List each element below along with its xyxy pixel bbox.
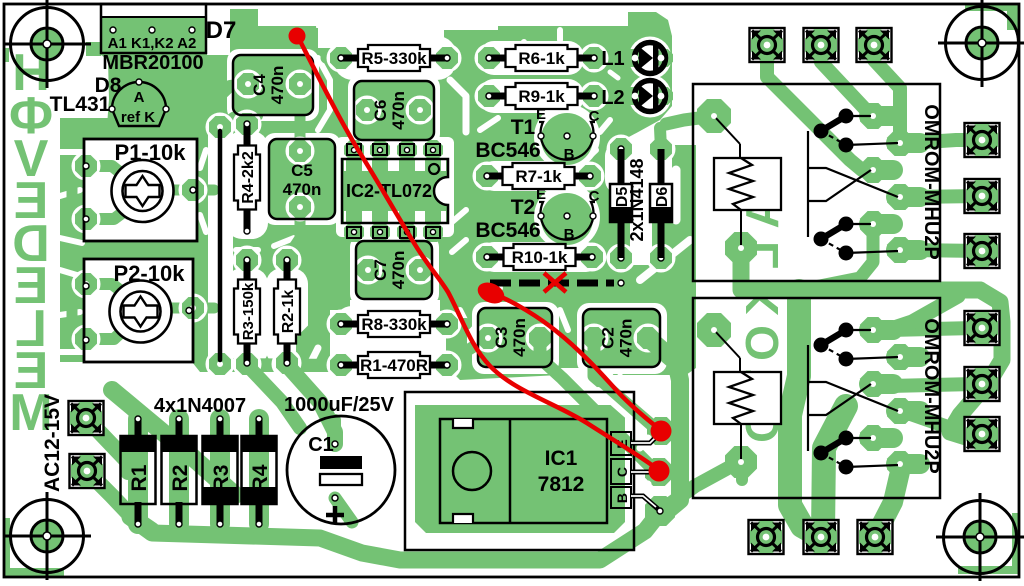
IC1 body outline	[440, 419, 607, 523]
clearance white D7 top strip	[103, 6, 205, 17]
IC1 tab hole	[453, 452, 491, 490]
trace J1-3 to relay1	[874, 45, 900, 143]
trace relay2 stub 384	[888, 384, 975, 386]
IC2 inner white bottom	[344, 211, 446, 222]
capacitor C6	[354, 81, 434, 140]
svg-text:O: O	[736, 325, 788, 361]
trace relay2 into top	[888, 296, 958, 330]
wire link W1	[218, 131, 223, 360]
IC1 notch top	[453, 419, 473, 428]
trimpot P2	[83, 259, 193, 362]
copper pour C3 C2 band	[440, 296, 696, 380]
copper pour middle-left block	[60, 118, 350, 372]
IC2 pin pads copper	[344, 140, 443, 242]
screw pad AC-2	[70, 454, 105, 488]
clearance ring R3	[226, 268, 268, 366]
screw pad bottom-1	[749, 520, 784, 554]
svg-text:R4: R4	[249, 464, 272, 491]
IC1 notch bottom	[453, 514, 473, 523]
trace C6 down	[362, 110, 372, 128]
screw pad J1-2	[804, 28, 839, 62]
svg-text:D6: D6	[654, 187, 671, 208]
IC1 heatsink copper	[415, 405, 625, 533]
copper pour D5 D6 blob	[598, 145, 696, 330]
trace P2 right pad	[193, 303, 214, 314]
svg-text:C1: C1	[308, 434, 334, 456]
svg-text:470n: 470n	[617, 319, 636, 358]
svg-text:A: A	[134, 89, 145, 106]
IC2 notch white	[434, 177, 448, 205]
trace P1 inside left-top	[88, 166, 132, 182]
clearance ring C6	[348, 75, 440, 146]
trace C3right to pinC	[540, 338, 659, 471]
svg-text:B: B	[564, 226, 575, 243]
clearance ring C4	[227, 49, 319, 121]
LED L2	[632, 81, 666, 112]
copper pour top-left D7 TL431 zone	[96, 9, 318, 142]
copper pour T column	[462, 104, 606, 298]
green left edge notch	[4, 48, 9, 62]
svg-text:B: B	[614, 493, 630, 503]
svg-text:C: C	[614, 467, 630, 477]
resistor R6	[486, 45, 597, 71]
svg-text:C3: C3	[492, 327, 511, 349]
svg-text:B: B	[564, 146, 575, 163]
screw pad right-5	[965, 367, 1000, 401]
trace R5 right to R9	[447, 58, 489, 96]
clearance ring L1	[629, 37, 672, 80]
trace relay2 411 out	[902, 411, 970, 434]
trace relay1 pad224 down	[800, 234, 873, 290]
green mirrored text ALKOTO	[736, 195, 788, 443]
T1 copper fill	[541, 113, 593, 165]
red jumper wire B	[492, 293, 658, 428]
diode D5	[610, 149, 632, 258]
clearance IC1 pads	[640, 438, 648, 492]
mounting hole bottom-left	[3, 492, 91, 580]
T2 copper fill	[541, 193, 593, 245]
svg-text:L1: L1	[601, 48, 624, 70]
capacitor C2	[583, 309, 660, 367]
mounting hole top-right	[938, 0, 1024, 87]
IC1 pin B box	[611, 487, 631, 508]
svg-text:P2-10k: P2-10k	[114, 261, 186, 286]
svg-text:R1-470R: R1-470R	[360, 356, 428, 375]
diag trace rowpads to C1	[286, 364, 335, 444]
trace diode bus bottom	[130, 512, 660, 560]
trace relay2 stub 330	[888, 328, 975, 330]
resistor R8	[338, 311, 450, 337]
trace LED zone to D6	[660, 128, 661, 149]
diode R4	[242, 416, 277, 527]
screw pad J1-3	[857, 28, 892, 62]
capacitor C3	[478, 308, 552, 367]
green mirrored brand text	[9, 44, 53, 442]
trace C5 down	[288, 207, 300, 256]
svg-text:TL431: TL431	[50, 93, 111, 116]
trace AC2 diag	[87, 471, 152, 530]
diode R2	[162, 416, 197, 527]
resistor R7	[484, 163, 593, 189]
clearance ring IC2	[336, 137, 454, 237]
svg-text:OMROM-MHU2P: OMROM-MHU2P	[920, 104, 942, 260]
clearance white inside P2 box	[84, 259, 193, 362]
IC1 pin C lead	[631, 470, 652, 475]
svg-text:R3-150k: R3-150k	[240, 282, 257, 340]
svg-text:T2: T2	[511, 196, 536, 219]
svg-text:470n: 470n	[268, 66, 287, 105]
IC1 tab divider	[509, 419, 512, 523]
capacitor C2 copper fill	[583, 309, 660, 367]
screw pad right-2	[965, 179, 1000, 213]
trace P2 inside left-top	[88, 284, 130, 298]
svg-text:C2: C2	[599, 327, 618, 349]
svg-text:R5-330k: R5-330k	[361, 49, 427, 68]
clearance ring R8 R1	[334, 306, 446, 382]
LED L1	[632, 43, 666, 74]
screw pad AC-1	[69, 401, 104, 435]
copper pour center block	[256, 145, 512, 300]
red X mark	[544, 273, 566, 292]
capacitor C5	[269, 139, 335, 219]
clearance channels field texture	[60, 30, 618, 364]
screw pad right-4	[965, 311, 1000, 345]
copper pour top-middle band	[256, 26, 512, 145]
trace P2 left pads	[72, 284, 86, 339]
clearance ring R2	[266, 268, 308, 366]
IC1 right pads copper	[645, 417, 675, 526]
LED pads	[625, 49, 673, 105]
clearance ring R7	[480, 161, 598, 191]
cut trace end hole	[618, 280, 624, 286]
svg-text:R3: R3	[210, 465, 233, 492]
clearance ring C7	[350, 235, 439, 306]
diode R3	[203, 416, 238, 527]
IC1 pin B lead	[631, 496, 658, 509]
capacitor C1 pads	[332, 441, 338, 501]
green corner bottom-left	[4, 518, 64, 577]
diode vertical strips	[138, 419, 259, 524]
svg-text:R8-330k: R8-330k	[361, 315, 427, 334]
cut trace dashed line	[490, 280, 614, 287]
trace relay1 right stubs	[910, 140, 982, 251]
svg-text:P1-10k: P1-10k	[115, 140, 187, 165]
svg-text:L: L	[736, 241, 788, 269]
trace J1-1 to relay1	[767, 45, 873, 170]
trace C1 minus diag	[335, 498, 352, 522]
svg-text:R4-2k2: R4-2k2	[240, 151, 257, 204]
svg-text:R2-1k: R2-1k	[280, 290, 297, 334]
svg-text:A1 K1,K2 A2: A1 K1,K2 A2	[108, 35, 197, 52]
relay RY1 copper pads	[697, 99, 930, 264]
trace relay1 coil left	[666, 116, 714, 124]
clearance ring R4	[226, 131, 268, 239]
svg-text:E: E	[536, 186, 546, 203]
svg-text:C: C	[589, 108, 600, 125]
capacitor C7 copper fill	[356, 241, 432, 299]
IC1 pin E box	[611, 432, 631, 455]
trace C4 to C5	[295, 84, 306, 151]
svg-text:470n: 470n	[389, 91, 408, 130]
diag trace 246 to diodes	[246, 364, 300, 428]
copper pads group A	[72, 70, 663, 379]
trace TL431 right to C4	[166, 84, 248, 109]
op-amp IC2 pin1 mark	[429, 164, 439, 174]
trace relay2 down B	[823, 406, 846, 533]
trace R9 to L2	[594, 91, 628, 101]
red wire A start dot	[289, 28, 306, 45]
trace C2left to pinE	[594, 338, 659, 431]
red wire A end dot	[649, 461, 670, 482]
resistor R2-1k	[274, 257, 300, 366]
screw pad bottom-3	[858, 520, 893, 554]
trace P1 inside left-bot	[88, 204, 134, 219]
svg-text:2x1N4148: 2x1N4148	[627, 158, 647, 241]
trace R8 right	[447, 318, 466, 330]
svg-text:BC546: BC546	[475, 219, 540, 242]
red wire B start dot	[474, 278, 507, 307]
IC1 pin C box	[611, 459, 631, 484]
trace AC1 diag	[86, 418, 128, 472]
trace R6 to L1	[594, 53, 628, 63]
svg-text:BC546: BC546	[475, 139, 540, 162]
trace relay2 down C	[876, 463, 902, 535]
svg-text:C6: C6	[371, 100, 390, 122]
trace C7 up	[363, 250, 373, 270]
trace pads row y364	[219, 364, 340, 365]
svg-text:L2: L2	[601, 87, 624, 109]
trace P2 inside left-bot	[88, 322, 132, 339]
svg-text:MBR20100: MBR20100	[102, 52, 203, 74]
screw pad right-3	[965, 234, 1000, 268]
IC2 copper fill	[342, 159, 448, 223]
svg-text:R7-1k: R7-1k	[515, 167, 562, 186]
svg-text:R6-1k: R6-1k	[518, 49, 565, 68]
copper pads group B ringed	[327, 44, 676, 380]
relay RY2 OMROM-MHU2P	[693, 298, 942, 498]
trace link top	[220, 117, 256, 127]
clearance ring R10	[480, 242, 600, 272]
clearance ring R9	[478, 79, 584, 113]
green corner top-right	[965, 4, 1020, 30]
capacitor C1 outline	[287, 416, 395, 524]
trace R1-470R to C3	[447, 338, 488, 365]
clearance white between D5 D6	[630, 150, 652, 265]
capacitor C6 copper fill	[354, 81, 434, 140]
IC2 pin columns	[346, 159, 441, 223]
resistor R1-470R	[338, 352, 450, 378]
svg-text:C5: C5	[291, 161, 313, 180]
screw pad right-1	[965, 123, 1000, 157]
green corner bottom-right	[958, 513, 1020, 574]
clearance ring C5	[263, 133, 341, 225]
capacitor C3 copper fill	[478, 308, 552, 367]
capacitor C1 plates	[320, 456, 362, 485]
trace R5 left	[326, 53, 341, 64]
clearance channel diag1	[598, 390, 650, 452]
svg-text:C: C	[589, 188, 600, 205]
IC1 pin E lead	[631, 432, 661, 443]
trace J1-2 to relay1	[821, 45, 873, 116]
copper pour L zone	[498, 12, 672, 145]
relay RY1 OMROM-MHU2P	[693, 84, 942, 281]
relay RY2 copper pads	[697, 313, 930, 478]
IC1 heatsink outline	[405, 392, 634, 550]
trace R4 top	[247, 116, 258, 124]
svg-text:ref K: ref K	[121, 109, 155, 126]
clearance ring R5	[333, 36, 457, 80]
trace D7 K down	[145, 32, 159, 55]
trace R8 left elbow	[302, 324, 341, 362]
trace C2 right down bar	[648, 338, 680, 510]
clearance ring C2	[577, 303, 667, 374]
trace S-curve	[950, 290, 1002, 437]
red wire B end dot	[651, 421, 672, 442]
IC2 inner white top	[344, 160, 446, 171]
clearance ring T1	[534, 104, 600, 170]
clearance ring D5D6	[605, 142, 672, 194]
diode R1	[121, 416, 156, 527]
svg-text:4x1N4007: 4x1N4007	[154, 395, 246, 417]
resistor R9	[486, 83, 597, 109]
svg-text:R10-1k: R10-1k	[512, 248, 568, 267]
clearance ring T2	[534, 184, 600, 250]
svg-text:7812: 7812	[538, 473, 585, 496]
trace P1 left pads	[72, 166, 86, 219]
svg-text:470n: 470n	[389, 251, 408, 290]
svg-text:AC12-15V: AC12-15V	[41, 394, 64, 492]
trace C1 top entry	[329, 420, 341, 444]
svg-text:E: E	[536, 106, 546, 123]
capacitor C4	[233, 55, 313, 115]
op-amp IC2 pins	[347, 144, 440, 238]
svg-text:OMROM-MHU2P: OMROM-MHU2P	[920, 318, 942, 474]
trace P2 inside right	[164, 303, 190, 314]
mounting hole top-left	[3, 0, 91, 88]
resistor R10	[484, 244, 595, 270]
trace Bpad to relay2	[660, 463, 742, 511]
svg-text:R9-1k: R9-1k	[518, 87, 565, 106]
trace relay2 coil down	[736, 463, 748, 480]
screw pad right-6	[965, 417, 1000, 451]
svg-text:D7: D7	[206, 17, 237, 44]
svg-text:T1: T1	[511, 116, 536, 139]
capacitor C7	[356, 241, 432, 299]
transistor T2	[538, 202, 596, 240]
trace relay1 coil down corridor	[741, 252, 980, 290]
trace P1 right pad	[193, 185, 214, 196]
diag trace behind diodes	[112, 390, 235, 495]
mounting hole bottom-right	[936, 493, 1024, 581]
C1 plus	[326, 506, 344, 524]
op-amp IC2 body	[342, 159, 448, 223]
clearance ring L2	[629, 75, 672, 118]
transistor T1	[538, 122, 596, 160]
red jumper wire A	[297, 35, 656, 468]
trace R6 left up	[480, 40, 489, 58]
diode D7 outline	[101, 4, 206, 53]
trace P1 inside right	[166, 185, 190, 196]
screw pad J1-1	[750, 28, 785, 62]
resistor R5	[338, 45, 450, 71]
capacitor C4 copper fill	[233, 55, 313, 115]
clearance white inside P1 box	[84, 139, 197, 241]
IC D8 TL431 outline	[109, 79, 169, 126]
svg-text:R2: R2	[169, 465, 192, 492]
resistor R4-2k2	[234, 121, 260, 234]
clearance ring R6	[478, 41, 584, 75]
clearance white right of D6	[640, 170, 690, 280]
svg-text:R1: R1	[128, 464, 151, 491]
svg-text:1000uF/25V: 1000uF/25V	[284, 394, 395, 416]
trimpot P1	[83, 139, 197, 241]
screw pad bottom-2	[804, 520, 839, 554]
svg-text:470n: 470n	[283, 180, 322, 199]
IC1 pin B hole	[657, 508, 663, 514]
clearance wirelink channel	[208, 120, 233, 370]
svg-text:C7: C7	[371, 259, 390, 281]
capacitor C5 copper fill	[269, 139, 335, 219]
diode D6	[650, 149, 672, 258]
resistor R3-150k	[234, 257, 260, 366]
svg-text:470n: 470n	[510, 318, 529, 357]
svg-text:C4: C4	[250, 74, 269, 96]
copper spur left of D7	[86, 42, 101, 56]
clearance diag stripes below C2	[556, 350, 648, 372]
clearance ring C3	[472, 302, 559, 374]
svg-text:IC1: IC1	[545, 447, 578, 470]
trace relay2 down A	[790, 291, 818, 535]
